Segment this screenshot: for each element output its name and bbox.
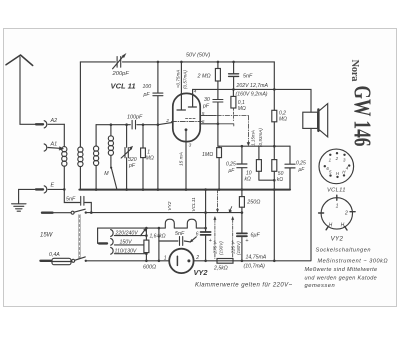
svg-text:kΩ: kΩ [277, 177, 284, 183]
svg-text:275 V: 275 V [213, 241, 218, 255]
label 1,15mA vertical [251, 128, 263, 147]
svg-text:225 V: 225 V [230, 241, 235, 255]
svg-text:VCL11: VCL11 [327, 188, 346, 194]
svg-text:2,5kΩ: 2,5kΩ [213, 265, 228, 271]
switch M [110, 167, 117, 190]
junction tap 110V [145, 252, 148, 255]
svg-text:H: H [329, 223, 333, 229]
svg-text:2 MΩ: 2 MΩ [197, 74, 211, 80]
svg-text:(180V): (180V) [236, 241, 241, 255]
junction grid wire / C-100pF line [157, 123, 160, 126]
svg-text:6μF: 6μF [251, 232, 261, 238]
svg-text:3: 3 [189, 143, 192, 149]
jack E [36, 186, 64, 193]
tube VCL11 [172, 93, 202, 141]
switch S2 [72, 257, 87, 262]
svg-text:A2: A2 [50, 118, 58, 124]
junction heater wire / C-5nF earth [90, 211, 93, 214]
junction heater wire / tie line [204, 211, 207, 214]
coil L2 [78, 147, 83, 190]
svg-text:110/130V: 110/130V [115, 249, 137, 255]
junction bus / coil L1 + earth [63, 188, 66, 191]
junction grid wire / coil L4 [110, 123, 113, 126]
resistor 2M [215, 62, 220, 99]
svg-text:5nF: 5nF [66, 197, 76, 203]
junction bus / C-100pF line [157, 188, 160, 191]
svg-text:H: H [341, 223, 345, 229]
svg-text:1,15mA: 1,15mA [251, 130, 256, 146]
junction screen row / C-0.25 left [241, 145, 244, 148]
svg-text:VY2: VY2 [331, 236, 344, 243]
cathode lead [185, 142, 187, 190]
svg-text:MΩ: MΩ [146, 155, 154, 161]
socket VY2 [319, 195, 356, 230]
svg-text:(0,57mA): (0,57mA) [183, 70, 188, 89]
coil L3 [94, 125, 99, 190]
right rail corner down [273, 62, 275, 110]
capacitor 100pF series [132, 120, 135, 129]
svg-text:A1: A1 [50, 141, 58, 147]
junction bottom wire / C-6uF right [241, 260, 244, 263]
wire A2 to coil L1 [63, 124, 65, 146]
svg-text:GW 146: GW 146 [349, 86, 375, 147]
svg-text:pF: pF [202, 104, 210, 110]
svg-text:(10,7mA): (10,7mA) [244, 264, 266, 270]
svg-text:VCL11: VCL11 [191, 197, 197, 212]
jack A1 [44, 144, 64, 151]
svg-text:1: 1 [164, 255, 167, 261]
crossing at 228 [201, 232, 211, 235]
svg-text:600Ω: 600Ω [143, 265, 156, 271]
svg-text:Meßinstrument ~ 300kΩ: Meßinstrument ~ 300kΩ [318, 259, 389, 265]
5nF at VY2 [159, 228, 196, 261]
junction anode wire / speaker feed [273, 88, 276, 91]
svg-text:220/240V: 220/240V [115, 230, 139, 236]
electrolytic left [201, 213, 211, 261]
triode anode lead [180, 62, 182, 94]
pin5 dash-dot line [200, 115, 248, 117]
capacitor 0,25uF left [237, 146, 247, 189]
svg-text:MΩ: MΩ [279, 116, 287, 122]
svg-text:VY2: VY2 [194, 268, 209, 277]
top rail [80, 61, 274, 63]
switch S1 [71, 209, 87, 214]
wire screen row [218, 145, 290, 147]
svg-text:pF: pF [143, 92, 151, 98]
svg-text:100: 100 [143, 84, 152, 90]
svg-text:Klammerwerte gelten für 220V~: Klammerwerte gelten für 220V~ [195, 283, 293, 289]
svg-text:1,64kΩ: 1,64kΩ [150, 234, 166, 240]
dash-dot measure at 217.5 [217, 190, 219, 210]
junction pin6 wire / screen line [217, 123, 220, 126]
heater line with arches [159, 219, 206, 228]
capacitor 0,25uF right [285, 146, 295, 189]
svg-text:VY2: VY2 [167, 201, 173, 210]
junction heater line / tie line [204, 227, 207, 230]
svg-text:14,75mA: 14,75mA [246, 255, 267, 261]
junction bus / R-1M screen [218, 188, 221, 191]
svg-text:E: E [51, 182, 55, 188]
resistor 10k [256, 146, 274, 180]
junction anode wire / C-5nF + R-0.1M [232, 88, 235, 91]
tube VY2 [169, 249, 193, 273]
junction bottom wire / bus riser [273, 260, 276, 263]
jack A2 [36, 121, 64, 128]
junction selector top / dropper [145, 227, 148, 230]
junction rail / C-5nF [232, 61, 235, 64]
resistor R-grid 1M [141, 125, 146, 190]
svg-text:30: 30 [204, 97, 210, 103]
svg-text:5nF: 5nF [175, 231, 185, 237]
junction bus / down lead [273, 188, 276, 191]
resistor 1M (second) [217, 146, 222, 189]
svg-text:2: 2 [335, 156, 339, 161]
bus to heater tie [205, 190, 207, 213]
capacitor 5nF top [229, 62, 239, 90]
svg-text:Nora: Nora [349, 60, 360, 83]
bottom wire [86, 260, 311, 262]
footnotes [305, 247, 389, 289]
ground bus [79, 189, 290, 191]
svg-text:Sockelschaltungen: Sockelschaltungen [316, 247, 371, 253]
svg-text:pF: pF [128, 163, 136, 169]
svg-text:≈0,75mA: ≈0,75mA [175, 70, 180, 88]
svg-text:Meßwerte sind Mittelwerte: Meßwerte sind Mittelwerte [305, 267, 378, 273]
svg-text:250Ω: 250Ω [246, 199, 260, 205]
resistor dropper 1,64k [141, 228, 149, 261]
junction heater line / VY2 anode line [158, 227, 161, 230]
junction bus / cathode [185, 188, 188, 191]
svg-text:(160V 9,2mA): (160V 9,2mA) [236, 91, 268, 97]
junction bottom wire / dropper [145, 260, 148, 263]
svg-text:gemessen: gemessen [305, 283, 336, 289]
svg-text:0,4A: 0,4A [49, 252, 60, 258]
junction bottom wire / C-5nF VY2 [158, 260, 161, 263]
svg-text:50: 50 [278, 171, 284, 177]
resistor 2,5k [217, 259, 233, 264]
mains stub upper [42, 211, 53, 213]
junction bus / coil L3 [95, 188, 98, 191]
svg-text:μF: μF [298, 167, 306, 173]
socket VCL11 [319, 149, 354, 184]
capacitor 100pF vertical [153, 62, 163, 190]
speaker [274, 89, 327, 260]
svg-text:kΩ: kΩ [245, 176, 252, 182]
junction R-10k R-50k join [273, 179, 276, 182]
junction grid wire / C-320pF [125, 123, 128, 126]
trimmer 200pF [113, 53, 127, 69]
capacitor 5nF earth [64, 189, 91, 212]
gang dashed link [78, 215, 80, 259]
resistor 250 [239, 190, 244, 213]
pin 4 lead [192, 89, 194, 93]
junction heater wire / R-250 + C-6uF [241, 211, 244, 214]
antenna [6, 55, 36, 124]
voltage selector [98, 228, 159, 254]
selector labels [115, 230, 139, 254]
coil L4 [108, 125, 113, 167]
svg-text:5: 5 [202, 111, 205, 117]
svg-text:200pF: 200pF [112, 71, 130, 77]
svg-text:VCL 11: VCL 11 [111, 82, 136, 91]
svg-text:15W: 15W [40, 232, 54, 238]
label 0.75mA vertical [175, 70, 187, 89]
junction rail / R-2M [217, 61, 220, 64]
right bus riser [289, 168, 291, 190]
left edge wire / coil L2 top lead [79, 62, 81, 147]
svg-text:2: 2 [344, 210, 348, 216]
labels VY2 / VCL11 vertical [167, 197, 197, 212]
pin labels [165, 89, 205, 149]
svg-text:(0,93mA): (0,93mA) [258, 128, 263, 147]
coil L1 antenna [62, 147, 67, 190]
anode wire to speaker [193, 88, 275, 90]
svg-text:50V (50V): 50V (50V) [186, 52, 210, 58]
svg-text:(190V): (190V) [218, 241, 223, 255]
resistor 0,1M [231, 89, 236, 120]
measure arrows 275V / 225V [214, 216, 234, 258]
electrolytic 6uF right [237, 213, 247, 261]
grid wire node [96, 122, 173, 124]
svg-text:0,25: 0,25 [226, 161, 236, 167]
junction bus / heater tie [204, 188, 207, 191]
pin6 wire [200, 123, 218, 125]
svg-text:2: 2 [195, 255, 199, 261]
svg-text:1MΩ: 1MΩ [202, 152, 213, 158]
capacitor 30pF [213, 100, 223, 147]
resistor 0,2M [272, 110, 277, 146]
pin 5 stub [200, 115, 216, 117]
svg-text:und werden gegen Katode: und werden gegen Katode [305, 275, 378, 281]
junction bus / R-250 + C-0.25 [241, 188, 244, 191]
svg-text:MΩ: MΩ [238, 106, 246, 112]
junction rail / triode anode [180, 61, 183, 64]
svg-text:15 mA: 15 mA [179, 152, 185, 166]
junction bus / R-1M grid [142, 188, 145, 191]
junction screen row / R-0.2M + R-50k [273, 145, 276, 148]
junction bus / C-320pF [125, 188, 128, 191]
junction rail / C-100pF line [157, 61, 160, 64]
resistor 50k [272, 146, 277, 261]
svg-text:2: 2 [165, 118, 169, 124]
svg-text:μF: μF [228, 168, 236, 174]
svg-text:150V: 150V [120, 240, 133, 246]
svg-text:M: M [104, 171, 109, 177]
svg-text:100pF: 100pF [127, 115, 143, 121]
junction tap 220V [145, 234, 148, 237]
svg-text:1: 1 [336, 203, 339, 209]
svg-text:5nF: 5nF [243, 73, 253, 79]
ground symbol [12, 189, 26, 211]
svg-text:6: 6 [196, 232, 199, 238]
heater wire [86, 212, 242, 214]
junction grid wire / R-1M grid [142, 123, 145, 126]
variable capacitor 320pF [121, 125, 133, 190]
svg-text:202V 12,7mA: 202V 12,7mA [236, 83, 269, 89]
svg-text:0,25: 0,25 [296, 161, 306, 167]
mains stub lower + fuse [41, 258, 72, 264]
junction bottom wire / C-6uF left [204, 260, 207, 263]
